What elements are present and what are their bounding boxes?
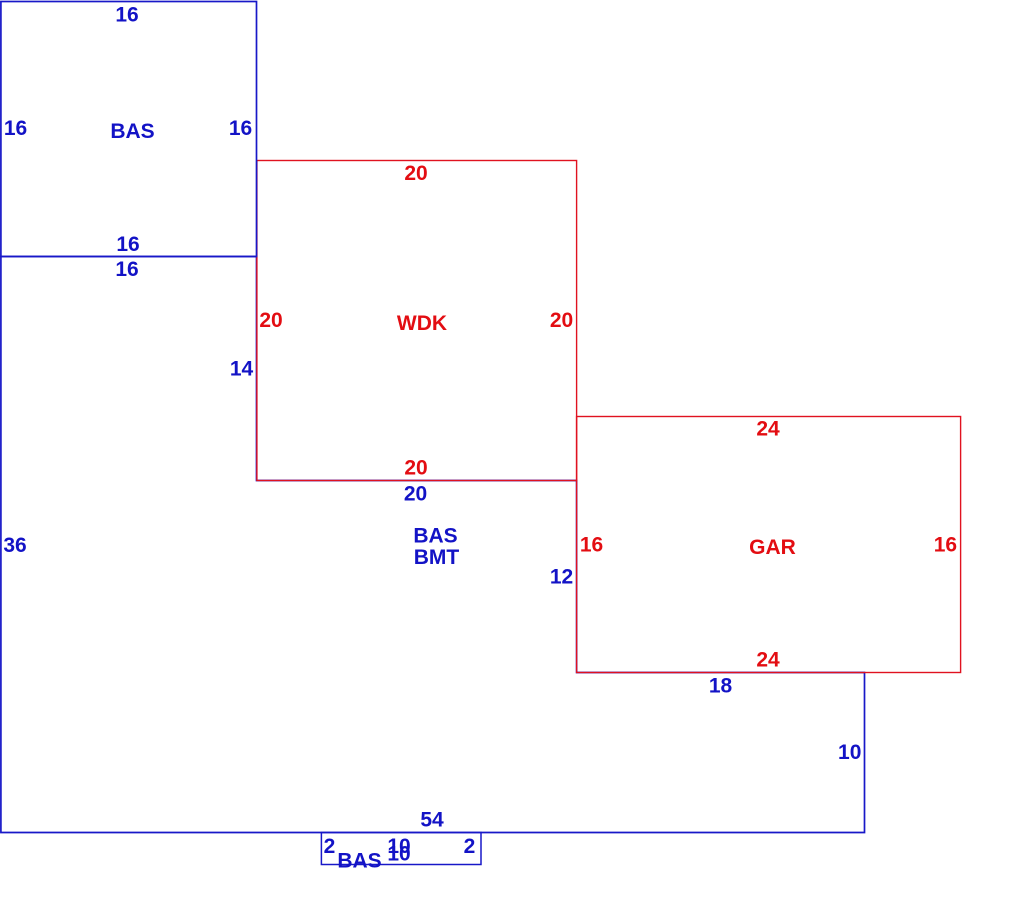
svg-text:20: 20	[259, 309, 282, 332]
svg-text:16: 16	[580, 533, 603, 556]
svg-text:BMT: BMT	[414, 546, 460, 569]
svg-text:10: 10	[387, 843, 410, 866]
svg-text:24: 24	[756, 418, 780, 441]
svg-text:GAR: GAR	[749, 536, 796, 559]
svg-text:16: 16	[229, 117, 252, 140]
svg-text:16: 16	[116, 233, 139, 256]
BAS small bottom rectangle	[321, 833, 481, 865]
WDK wood deck rectangle	[257, 161, 577, 481]
svg-text:BAS: BAS	[337, 850, 381, 873]
svg-text:14: 14	[230, 357, 254, 380]
svg-text:WDK: WDK	[397, 312, 447, 335]
svg-text:20: 20	[404, 483, 427, 506]
svg-text:20: 20	[404, 162, 427, 185]
svg-text:12: 12	[550, 565, 573, 588]
svg-text:18: 18	[709, 675, 733, 698]
svg-text:16: 16	[934, 533, 957, 556]
svg-text:BAS: BAS	[413, 525, 457, 548]
svg-text:36: 36	[3, 534, 26, 557]
svg-text:16: 16	[115, 258, 138, 281]
svg-text:2: 2	[464, 835, 476, 858]
svg-text:54: 54	[420, 809, 444, 832]
svg-text:10: 10	[838, 741, 861, 764]
BAS first-floor square (top-left)	[1, 2, 257, 257]
svg-text:16: 16	[4, 117, 27, 140]
svg-text:20: 20	[550, 309, 573, 332]
svg-text:24: 24	[756, 649, 780, 672]
BMT/BAS basement polygon outline	[1, 257, 865, 833]
svg-text:16: 16	[115, 3, 138, 26]
svg-text:BAS: BAS	[110, 120, 154, 143]
GAR garage rectangle	[577, 417, 961, 673]
svg-text:2: 2	[324, 835, 336, 858]
svg-text:20: 20	[404, 457, 427, 480]
